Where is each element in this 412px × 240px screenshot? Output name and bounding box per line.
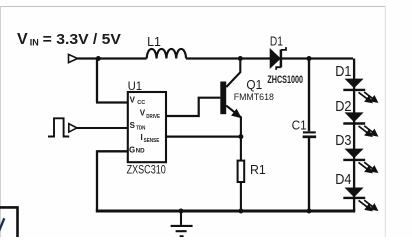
svg-text:ZHCS1000: ZHCS1000 <box>267 74 303 86</box>
svg-text:S: S <box>130 121 136 130</box>
svg-text:TDN: TDN <box>136 126 145 132</box>
svg-text:= 3.3V / 5V: = 3.3V / 5V <box>43 31 121 48</box>
svg-text:G: G <box>129 145 135 154</box>
svg-text:D2: D2 <box>335 99 351 115</box>
svg-text:U1: U1 <box>128 79 143 93</box>
svg-text:V: V <box>140 108 146 117</box>
svg-text:D3: D3 <box>335 133 351 149</box>
svg-text:DRIVE: DRIVE <box>146 114 160 120</box>
svg-text:ZXSC310: ZXSC310 <box>127 163 166 177</box>
svg-text:V: V <box>130 96 136 105</box>
svg-text:ND: ND <box>136 147 145 154</box>
svg-text:D1: D1 <box>270 34 283 49</box>
svg-text:V: V <box>17 31 28 48</box>
svg-text:FMMT618: FMMT618 <box>234 92 274 103</box>
svg-text:D1: D1 <box>335 64 351 80</box>
svg-text:L1: L1 <box>147 35 161 49</box>
svg-text:I: I <box>141 133 143 142</box>
svg-text:D4: D4 <box>335 172 351 188</box>
svg-text:IN: IN <box>30 38 39 48</box>
svg-text:C1: C1 <box>292 118 307 133</box>
svg-text:CC: CC <box>137 100 145 106</box>
svg-text:R1: R1 <box>250 162 266 177</box>
svg-text:SENSE: SENSE <box>144 138 160 144</box>
svg-text:Q1: Q1 <box>246 77 262 92</box>
